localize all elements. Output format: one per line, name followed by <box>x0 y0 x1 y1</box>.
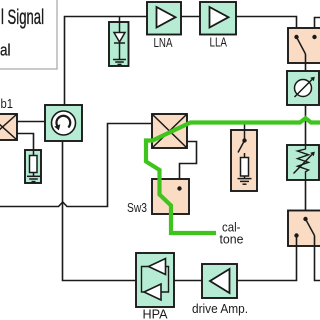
svg-text:b1: b1 <box>1 97 14 111</box>
wire: SW2 lever side down and off right edge <box>315 236 320 281</box>
wire: lower bus with hop over HPA line, then up to hybrid2 <box>0 124 152 207</box>
legend box <box>0 0 57 69</box>
svg-text:LNA: LNA <box>154 35 173 50</box>
wire: circulator left port to hybrid b1 <box>17 121 45 123</box>
svg-text:tone: tone <box>220 233 244 247</box>
variable attenuator <box>287 145 319 180</box>
wire: SW1 output to phase shifter <box>305 54 307 71</box>
cal-tone green path <box>146 118 320 233</box>
amplifier LNA <box>147 2 181 35</box>
svg-text:l Signal: l Signal <box>1 6 44 29</box>
wire: main top run from circulator up-corner across to SW1 drop <box>65 17 297 106</box>
hybrid coupler 2 cal-tone injection <box>152 114 187 148</box>
svg-text:drive Amp.: drive Amp. <box>192 302 248 316</box>
wire: phase shifter to attenuator (crosses cal line) <box>305 105 307 145</box>
wire: SW2 left throw down and to drive amp <box>237 236 297 281</box>
wire: HPA output left then up to circulator (passes under hop) <box>63 141 137 281</box>
limiter diode to ground <box>109 17 129 67</box>
amplifier LLA <box>200 2 236 35</box>
wire: hybrid b1 coupled port to terminator <box>17 134 34 151</box>
circulator <box>45 105 82 141</box>
switch SW1 <box>288 28 320 63</box>
switched termination on cal line <box>231 124 257 191</box>
amplifier HPA balanced pair <box>136 253 174 307</box>
svg-text:Sw3: Sw3 <box>127 201 147 215</box>
hybrid coupler b1 (cropped at left edge) <box>0 114 17 140</box>
wire: hybrid2 output staircase to Sw3 contact <box>180 142 197 189</box>
wire: drive amp to HPA <box>174 280 202 282</box>
svg-text:LLA: LLA <box>210 35 228 50</box>
amplifier drive Amp. <box>202 264 237 298</box>
wire: attenuator to SW2 <box>305 180 307 211</box>
svg-text:al: al <box>0 41 11 60</box>
variable phase shifter <box>287 71 319 105</box>
svg-text:HPA: HPA <box>143 308 169 320</box>
terminator resistor to ground <box>25 150 41 183</box>
switch SW2 <box>288 211 320 247</box>
switch Sw3 <box>152 179 189 214</box>
wire: SW1 right contact up and off right edge <box>315 18 320 38</box>
